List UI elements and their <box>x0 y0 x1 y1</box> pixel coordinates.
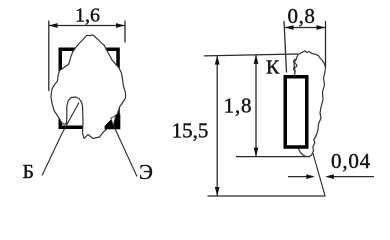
0,04 left arrow (pointing right) <box>288 176 308 178</box>
arrowhead top of 15,5 <box>215 56 220 65</box>
tick reference line for 1,8 <box>236 156 310 158</box>
arrowhead bottom of 15,5 <box>215 187 220 196</box>
svg-text:0,8: 0,8 <box>287 4 315 28</box>
dimension line 15,5 <box>216 56 218 196</box>
bottom reference line <box>208 195 326 197</box>
extension line right of dimension 0,8 <box>325 21 327 68</box>
dimension line 0,8 <box>285 27 326 29</box>
collector plate rectangle (thick outline) <box>285 77 307 147</box>
svg-text:15,5: 15,5 <box>172 119 209 143</box>
svg-text:0,04: 0,04 <box>331 149 371 173</box>
leader line to base Б <box>42 103 79 176</box>
svg-text:Б: Б <box>23 161 34 183</box>
svg-text:К: К <box>266 57 280 79</box>
leader line to emitter Э <box>114 127 137 177</box>
leader squiggle from К to plate top <box>294 59 297 72</box>
compound drop blob around collector plate <box>294 51 326 157</box>
crystal square (thick outline) <box>60 49 118 127</box>
arrowhead left of 0,8 <box>285 25 294 30</box>
redrawn bottom-right corner of square (on top of blob) <box>105 114 121 129</box>
dimension line 1,6 <box>49 25 126 27</box>
arrowhead bottom of 1,8 <box>254 148 259 157</box>
arrowhead right of 1,6 <box>116 23 125 28</box>
white notch in bottom-right corner <box>111 116 116 125</box>
lead shown edge-on (diagonal) <box>313 154 325 197</box>
arrowhead top of 1,8 <box>254 55 259 64</box>
top reference line <box>204 54 298 56</box>
svg-text:1,8: 1,8 <box>224 94 253 118</box>
arrowhead left of 1,6 <box>49 23 58 28</box>
extension line left of dimension 1,6 <box>48 21 50 92</box>
arrowhead right of 0,8 <box>317 25 326 30</box>
0,04 right arrow (pointing left) <box>333 176 374 178</box>
svg-text:Э: Э <box>139 160 153 184</box>
compound drop blob (hand-drawn outline, white fill) <box>51 35 126 139</box>
dimension line 1,8 <box>255 55 257 157</box>
svg-text:1,6: 1,6 <box>75 5 100 27</box>
extension line left of dimension 0,8 <box>284 21 287 73</box>
extension line right of dimension 1,6 <box>124 21 126 43</box>
